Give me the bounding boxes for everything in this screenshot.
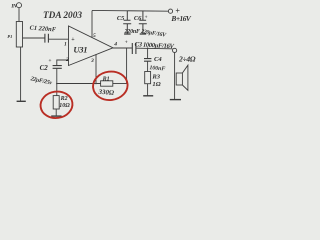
junction pin3-node [95, 83, 97, 85]
svg-text:TDA 2003: TDA 2003 [43, 11, 82, 21]
svg-text:R1: R1 [102, 77, 110, 83]
capacitor C3 [132, 43, 136, 54]
terminal B+ [168, 9, 172, 13]
red highlight ellipse around R2 [39, 90, 74, 121]
svg-text:+: + [71, 37, 75, 43]
wire node A to R2 [56, 84, 58, 96]
svg-text:5: 5 [93, 33, 96, 39]
capacitor C6 [139, 11, 147, 34]
svg-text:4: 4 [113, 41, 117, 47]
svg-text:IN: IN [10, 5, 17, 10]
svg-text:C2: C2 [40, 64, 49, 72]
svg-text:+: + [48, 58, 51, 64]
ground [17, 100, 26, 102]
wire C4 tap [147, 48, 149, 58]
svg-text:B+16V: B+16V [170, 14, 192, 23]
wire R2 to ground [55, 109, 57, 116]
speaker LS1 [176, 73, 182, 85]
svg-text:3: 3 [90, 58, 94, 64]
ground [140, 33, 147, 35]
svg-text:1Ω: 1Ω [152, 81, 160, 88]
svg-text:10Ω: 10Ω [59, 103, 70, 109]
op-amp U31 [69, 26, 114, 66]
svg-text:220nF: 220nF [124, 29, 141, 35]
svg-text:P1: P1 [7, 34, 12, 39]
ground [124, 33, 131, 35]
wire C2 to node A [56, 69, 58, 84]
ground [51, 115, 61, 117]
svg-text:R3: R3 [151, 73, 160, 80]
svg-text:R2: R2 [60, 96, 68, 102]
ground [170, 99, 181, 101]
wire C4 to R3 [147, 62, 149, 72]
junction node A [56, 83, 58, 85]
svg-text:+: + [145, 15, 148, 21]
wire riser to output [126, 48, 128, 84]
wire R1 to output riser [113, 83, 127, 85]
svg-text:U31: U31 [73, 45, 87, 55]
output terminal [173, 48, 177, 52]
resistor R2 [53, 96, 59, 109]
red highlight ellipse around R1 [91, 70, 129, 102]
svg-text:330Ω: 330Ω [97, 89, 114, 97]
wire pin2 [57, 60, 69, 65]
capacitor C1 [45, 34, 49, 43]
svg-text:C4: C4 [154, 56, 162, 63]
wire supply rail [92, 9, 168, 12]
wire input to P1 [18, 7, 20, 21]
wire output pin4 [113, 47, 132, 49]
wire wiper to C1 [23, 37, 45, 39]
wire R3 to ground [147, 84, 149, 96]
svg-text:+: + [125, 39, 128, 45]
wire pin5 [91, 11, 93, 38]
wire P1 to ground [20, 47, 22, 101]
svg-text:2: 2 [65, 57, 69, 63]
capacitor C5 [123, 11, 131, 34]
wire C1 to pin1 [49, 38, 69, 40]
ground [143, 95, 153, 97]
svg-text:C6: C6 [134, 15, 142, 22]
capacitor C4 [144, 59, 151, 62]
wire feedback node A to R1 [57, 83, 101, 85]
svg-text:2÷4Ω: 2÷4Ω [178, 54, 196, 63]
resistor R1 [101, 81, 113, 86]
svg-text:1: 1 [64, 41, 67, 47]
input terminal [17, 3, 22, 8]
wire C3 to speaker terminal [136, 47, 172, 50]
wire pin3 [95, 54, 97, 83]
svg-text:C5: C5 [117, 15, 125, 22]
junction C4 tap [147, 47, 149, 49]
capacitor C2 [53, 66, 62, 69]
wire speaker [174, 53, 176, 100]
resistor R3 [145, 72, 151, 84]
resistor P1 [16, 22, 22, 48]
